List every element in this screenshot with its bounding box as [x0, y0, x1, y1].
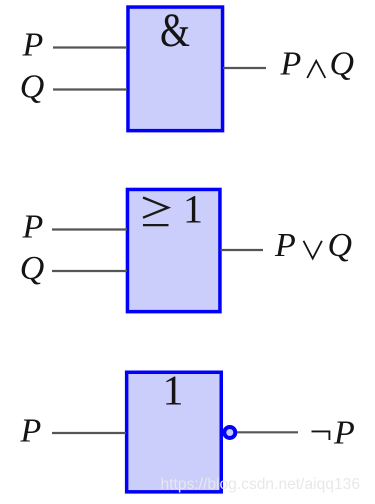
- net label P OR Q: [274, 227, 352, 264]
- AND gate U1 body: [128, 7, 223, 131]
- OR gate U2 body: [127, 189, 220, 311]
- svg-text:P: P: [22, 27, 44, 64]
- NOT gate U3 body: [127, 372, 222, 492]
- wire U3 output: [237, 431, 298, 433]
- svg-text:P: P: [20, 413, 42, 450]
- OR gate U2 label >=1: [143, 187, 203, 232]
- svg-text:Q: Q: [328, 227, 353, 264]
- negation bubble U3: [224, 427, 235, 438]
- net label P AND Q: [280, 46, 355, 83]
- svg-text:1: 1: [163, 369, 184, 415]
- svg-text:Q: Q: [20, 250, 45, 287]
- svg-text:&: &: [160, 4, 190, 57]
- wire U2 input Q: [52, 270, 127, 272]
- wire U3 input P: [52, 432, 126, 434]
- svg-text:https://blog.csdn.net/aiqq136: https://blog.csdn.net/aiqq136: [161, 476, 361, 493]
- svg-text:Q: Q: [20, 69, 45, 106]
- net label NOT P: [312, 415, 355, 452]
- svg-text:P: P: [333, 415, 355, 452]
- svg-text:P: P: [274, 227, 296, 264]
- svg-text:1: 1: [183, 187, 203, 232]
- wire U2 output: [221, 249, 264, 251]
- wire U1 input P: [53, 46, 127, 48]
- svg-text:P: P: [280, 46, 302, 83]
- wire U1 input Q: [53, 88, 127, 90]
- wire U1 output: [223, 67, 266, 69]
- svg-text:P: P: [22, 209, 44, 246]
- wire U2 input P: [52, 228, 127, 230]
- svg-text:Q: Q: [330, 46, 355, 83]
